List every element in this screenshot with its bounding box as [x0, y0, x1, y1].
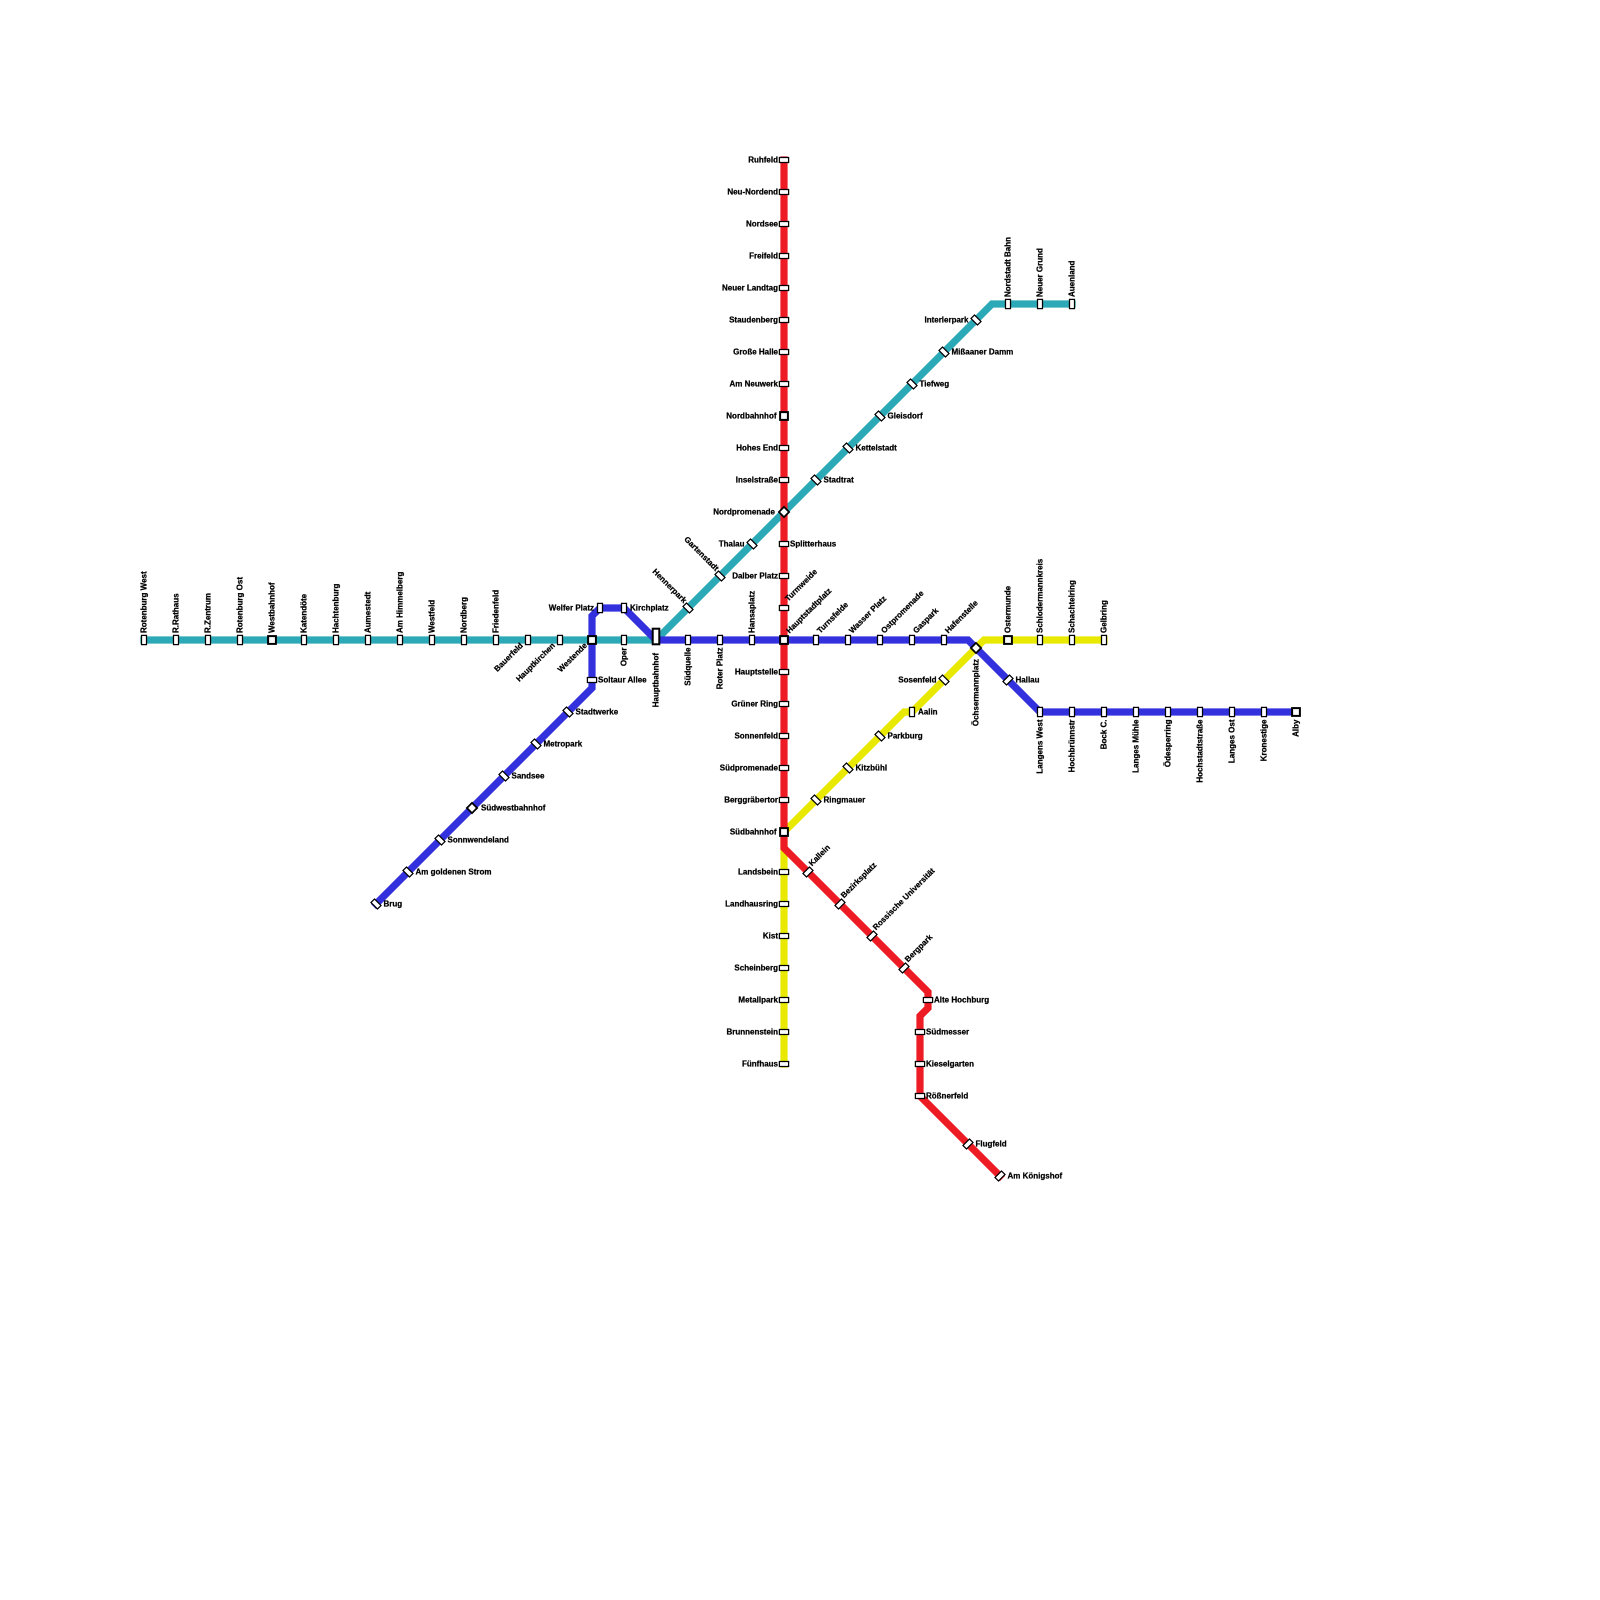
svg-text:Friedenfeld: Friedenfeld [492, 590, 501, 633]
svg-text:Südbahnhof: Südbahnhof [730, 828, 777, 837]
svg-text:Rotenburg Ost: Rotenburg Ost [236, 577, 245, 633]
svg-text:Auenland: Auenland [1068, 260, 1077, 297]
svg-text:Sosenfeld: Sosenfeld [898, 676, 936, 685]
svg-text:Kist: Kist [763, 932, 778, 941]
svg-text:Soltaur Allee: Soltaur Allee [598, 676, 647, 685]
svg-text:Katendöte: Katendöte [300, 593, 309, 633]
svg-text:Ruhfeld: Ruhfeld [748, 156, 778, 165]
svg-text:Ödesperring: Ödesperring [1164, 719, 1173, 767]
svg-text:Westfeld: Westfeld [428, 600, 437, 633]
svg-text:Mißaaner Damm: Mißaaner Damm [952, 348, 1014, 357]
svg-text:Nordstadt Bahn: Nordstadt Bahn [1004, 237, 1013, 297]
svg-text:Splitterhaus: Splitterhaus [790, 540, 837, 549]
svg-text:Südquelle: Südquelle [684, 647, 693, 686]
svg-text:Kettelstadt: Kettelstadt [856, 444, 898, 453]
svg-text:Südwestbahnhof: Südwestbahnhof [481, 804, 546, 813]
svg-text:Berggräbertor: Berggräbertor [724, 796, 778, 805]
svg-text:Südmesser: Südmesser [926, 1028, 969, 1037]
svg-text:Hohes End: Hohes End [736, 444, 778, 453]
svg-text:Kitzbühl: Kitzbühl [856, 764, 888, 773]
svg-text:Stadtwerke: Stadtwerke [576, 708, 619, 717]
svg-text:Am goldenen Strom: Am goldenen Strom [416, 868, 492, 877]
svg-text:Nordsee: Nordsee [746, 220, 779, 229]
svg-text:Landsbein: Landsbein [738, 868, 778, 877]
svg-text:Langes Ost: Langes Ost [1228, 719, 1237, 763]
svg-text:Gleisdorf: Gleisdorf [888, 412, 923, 421]
svg-text:Alte Hochburg: Alte Hochburg [934, 996, 989, 1005]
svg-text:Tiefweg: Tiefweg [920, 380, 950, 389]
svg-text:Neuer Landtag: Neuer Landtag [722, 284, 778, 293]
svg-text:Nordberg: Nordberg [460, 597, 469, 633]
svg-text:Südpromenade: Südpromenade [720, 764, 779, 773]
svg-text:Nordpromenade: Nordpromenade [713, 508, 775, 517]
svg-text:Nordbahnhof: Nordbahnhof [726, 412, 777, 421]
svg-text:Ostermunde: Ostermunde [1004, 585, 1013, 633]
svg-text:Scheinberg: Scheinberg [734, 964, 778, 973]
svg-text:Hallau: Hallau [1016, 676, 1040, 685]
svg-text:Hansaplatz: Hansaplatz [748, 591, 757, 633]
svg-text:Kieselgarten: Kieselgarten [926, 1060, 974, 1069]
svg-text:Staudenberg: Staudenberg [729, 316, 778, 325]
svg-text:Hochbrünnstr: Hochbrünnstr [1068, 720, 1077, 773]
svg-text:Fünfhaus: Fünfhaus [742, 1060, 779, 1069]
svg-text:Rotenburg West: Rotenburg West [140, 571, 149, 633]
svg-text:Bock C.: Bock C. [1100, 720, 1109, 750]
svg-text:Aumestedt: Aumestedt [364, 591, 373, 633]
svg-text:Alby: Alby [1292, 719, 1301, 737]
svg-text:Inselstraße: Inselstraße [736, 476, 779, 485]
svg-text:R.Zentrum: R.Zentrum [204, 593, 213, 633]
svg-text:Sonnenfeld: Sonnenfeld [734, 732, 778, 741]
svg-text:Am Neuwerk: Am Neuwerk [730, 380, 779, 389]
svg-text:Brunnenstein: Brunnenstein [726, 1028, 778, 1037]
svg-text:Öchsermannplatz: Öchsermannplatz [972, 659, 981, 726]
svg-text:Hauptbahnhof: Hauptbahnhof [652, 653, 661, 708]
svg-text:Metallpark: Metallpark [738, 996, 778, 1005]
svg-text:Sandsee: Sandsee [512, 772, 545, 781]
svg-text:Grüner Ring: Grüner Ring [731, 700, 778, 709]
svg-text:Neu-Nordend: Neu-Nordend [727, 188, 778, 197]
svg-text:Am Königshof: Am Königshof [1008, 1172, 1063, 1181]
svg-text:Dalber Platz: Dalber Platz [732, 572, 778, 581]
svg-text:Am Himmelberg: Am Himmelberg [396, 572, 405, 633]
svg-text:Hachtenburg: Hachtenburg [332, 584, 341, 633]
svg-text:Kronestige: Kronestige [1260, 719, 1269, 761]
svg-text:R.Rathaus: R.Rathaus [172, 593, 181, 633]
svg-text:Landhausring: Landhausring [725, 900, 778, 909]
svg-text:Große Halle: Große Halle [733, 348, 778, 357]
svg-text:Ringmauer: Ringmauer [824, 796, 866, 805]
svg-text:Rößnerfeld: Rößnerfeld [926, 1092, 968, 1101]
svg-text:Schachtelring: Schachtelring [1068, 580, 1077, 633]
svg-text:Kirchplatz: Kirchplatz [630, 604, 669, 613]
svg-text:Schlodermannkreis: Schlodermannkreis [1036, 558, 1045, 633]
svg-text:Parkburg: Parkburg [888, 732, 923, 741]
svg-text:Metropark: Metropark [544, 740, 583, 749]
svg-text:Hauptstelle: Hauptstelle [735, 668, 779, 677]
svg-text:Brug: Brug [384, 900, 403, 909]
svg-text:Aalin: Aalin [918, 708, 938, 717]
svg-text:Gelbring: Gelbring [1100, 600, 1109, 633]
svg-text:Neuer Grund: Neuer Grund [1036, 248, 1045, 297]
svg-text:Interlerpark: Interlerpark [924, 316, 969, 325]
svg-text:Freifeld: Freifeld [749, 252, 778, 261]
svg-text:Westbahnhof: Westbahnhof [268, 582, 277, 633]
svg-text:Oper: Oper [620, 648, 629, 667]
svg-text:Langens West: Langens West [1036, 719, 1045, 773]
svg-text:Roter Platz: Roter Platz [716, 648, 725, 690]
svg-text:Hochstadtstraße: Hochstadtstraße [1196, 719, 1205, 783]
svg-text:Stadtrat: Stadtrat [824, 476, 855, 485]
svg-text:Thalau: Thalau [719, 540, 745, 549]
svg-text:Welfer Platz: Welfer Platz [549, 604, 594, 613]
svg-text:Flugfeld: Flugfeld [976, 1140, 1007, 1149]
svg-text:Sonnwendeland: Sonnwendeland [448, 836, 509, 845]
svg-text:Langes Mühle: Langes Mühle [1132, 719, 1141, 773]
